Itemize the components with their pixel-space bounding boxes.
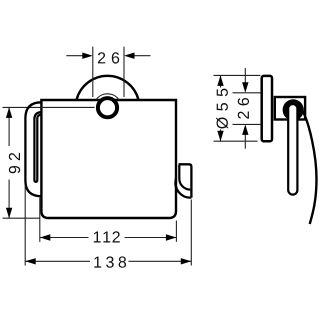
spindle circle (front view) bbox=[98, 98, 117, 117]
dimension line Ø55 bbox=[220, 75, 222, 87]
spindle hub thin arc bbox=[96, 94, 120, 100]
extension line 26 right bbox=[123, 47, 125, 97]
cover plate (front view) bbox=[41, 100, 176, 218]
roll holder arm bar (side view) bbox=[288, 104, 297, 195]
extension line 112 right bbox=[175, 221, 177, 242]
label Ø55 bbox=[216, 89, 228, 129]
label 26 side bbox=[238, 98, 249, 119]
extension line 138 left bbox=[24, 185, 26, 265]
wall plate dome (front view) bbox=[77, 76, 139, 100]
dimension line 26 (side) bbox=[244, 68, 246, 82]
roll holder bar inner edge with U-slot (front view left) bbox=[34, 112, 41, 182]
arrow 138 left bbox=[25, 258, 36, 264]
extension line 92 bottom bbox=[3, 217, 40, 219]
arrow 92 up bbox=[6, 107, 12, 118]
arrow 26 right bbox=[134, 55, 151, 57]
extension line 26 left bbox=[92, 47, 94, 97]
spindle boss (side view) bbox=[283, 99, 304, 120]
dimension line 92 bbox=[8, 107, 10, 146]
extension line 138 right bbox=[190, 200, 192, 266]
roll holder bar outer edge (front view left) bbox=[25, 102, 41, 196]
roll holder arm inner curve (front view right) bbox=[179, 165, 190, 190]
wall plate (side view) bbox=[262, 76, 272, 141]
arrow 26 left bbox=[66, 55, 83, 57]
label 26 top bbox=[98, 52, 119, 63]
extension line 112 left bbox=[39, 198, 41, 242]
arm curve (side view) bbox=[303, 111, 317, 225]
label 112 bbox=[94, 231, 120, 242]
dimension line 138 bbox=[25, 260, 90, 262]
arrow Ø55 down bbox=[217, 131, 223, 142]
arrow 26 side up bbox=[242, 124, 248, 134]
arrow 26 side down bbox=[242, 82, 248, 93]
label 138 bbox=[94, 256, 126, 267]
arrow 138 right bbox=[181, 258, 192, 264]
roll holder arm top piece (front view right) bbox=[179, 164, 192, 197]
roll holder arm sweep to cover edge (front view right) bbox=[175, 179, 191, 198]
extension line 26 bottom (side) bbox=[233, 123, 261, 125]
extension line 26 top (side) bbox=[233, 92, 261, 94]
extension line Ø55 bottom bbox=[214, 140, 258, 142]
arrow Ø55 up bbox=[217, 75, 223, 86]
arrow 92 down bbox=[6, 208, 12, 219]
arrow 112 left bbox=[40, 234, 51, 240]
extension line 92 top (to spindle axis) bbox=[3, 106, 95, 108]
extension line Ø55 top bbox=[214, 74, 261, 76]
label 92 bbox=[9, 153, 20, 173]
arm bracket (side view) bbox=[275, 97, 305, 120]
dimension line 112 bbox=[40, 237, 89, 239]
arrow 112 right bbox=[166, 234, 177, 240]
